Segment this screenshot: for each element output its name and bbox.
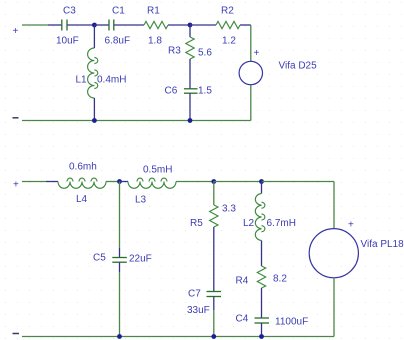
resistor R4 [257, 266, 265, 288]
svg-text:22uF: 22uF [129, 254, 152, 265]
node C (junction L4/L3/C5) [117, 179, 122, 184]
svg-text:+: + [348, 220, 354, 231]
wire C5 to bottom rail [119, 262, 121, 272]
wire node B to R2 [190, 24, 216, 26]
wire C4 to bottom rail [261, 323, 263, 337]
wire bottom rail of bottom circuit [22, 336, 334, 338]
inductor L3 [128, 178, 176, 188]
wire speaker bottom to bottom rail [250, 85, 252, 121]
capacitor C7 [207, 292, 222, 297]
wire corner down to speaker U2 [333, 182, 335, 229]
wire top rail left from + to C3 [22, 24, 48, 26]
wire node A to C1 [94, 24, 109, 26]
resistor R1 [144, 21, 168, 28]
svg-text:10uF: 10uF [56, 36, 79, 47]
node - (woofer minus terminal) [13, 333, 20, 335]
wire node D to node E [214, 181, 262, 183]
node junction L1/bottom rail [92, 118, 97, 123]
wire C1 to R1 [114, 24, 144, 26]
svg-text:C7: C7 [188, 289, 201, 300]
svg-text:Vifa D25: Vifa D25 [279, 61, 318, 72]
svg-text:6.7mH: 6.7mH [267, 218, 296, 229]
svg-text:1.2: 1.2 [222, 36, 236, 47]
wire node E down to L2 [261, 182, 263, 194]
node B (junction R1/R2/R3) [188, 23, 193, 28]
svg-text:8.2: 8.2 [273, 274, 287, 285]
wire L1 to bottom rail [93, 98, 95, 121]
wire node C to L3 [120, 181, 129, 183]
wire corner down to speaker U1 [250, 25, 252, 61]
svg-text:+: + [13, 26, 19, 37]
node junction C4/bottom rail [259, 334, 264, 339]
wire L3 to node D [176, 181, 214, 183]
wire bottom rail of top circuit [22, 120, 251, 122]
wire node A down to L1 [93, 25, 95, 48]
node junction C6/bottom rail [188, 118, 193, 123]
wire R4 to C4 [261, 288, 263, 318]
speaker U1 Vifa D25 [239, 61, 262, 84]
svg-text:R2: R2 [221, 6, 234, 17]
svg-text:+: + [254, 48, 260, 59]
svg-text:3.3: 3.3 [222, 204, 236, 215]
inductor L4 [58, 178, 106, 188]
svg-text:5.6: 5.6 [198, 48, 212, 59]
capacitor C1 [109, 20, 114, 31]
svg-text:L1: L1 [76, 75, 88, 86]
wire speaker bottom to bottom rail [333, 278, 335, 337]
svg-text:1100uF: 1100uF [275, 317, 308, 328]
svg-text:0.4mH: 0.4mH [97, 75, 126, 86]
svg-text:6.8uF: 6.8uF [105, 36, 131, 47]
node junction C5/bottom rail [117, 334, 122, 339]
inductor L2 [255, 194, 265, 241]
svg-text:L4: L4 [76, 194, 88, 205]
svg-text:Vifa PL18: Vifa PL18 [361, 239, 404, 250]
svg-text:C5: C5 [93, 253, 106, 264]
svg-text:1.5: 1.5 [198, 86, 212, 97]
wire R3 to C6 [189, 59, 191, 89]
svg-text:L2: L2 [243, 218, 255, 229]
svg-text:0.5mH: 0.5mH [143, 165, 172, 176]
wire node B down to R3 [189, 25, 191, 37]
resistor R3 [186, 37, 194, 59]
svg-text:+: + [13, 180, 19, 191]
inductor L1 [88, 48, 98, 98]
wire C3 to node A [67, 24, 94, 26]
wire from + to L4 [22, 181, 46, 183]
svg-text:R4: R4 [236, 276, 249, 287]
wire R5 to C7 [213, 227, 215, 292]
wire L4 to node C [106, 181, 120, 183]
node E (junction L2 branch) [259, 179, 264, 184]
resistor R5 [210, 205, 218, 227]
wire node E to top-right corner [262, 181, 335, 183]
speaker U2 Vifa PL18 [309, 229, 358, 278]
node D (junction R5 branch) [211, 179, 216, 184]
wire node C down to C5 [119, 182, 121, 249]
svg-text:R3: R3 [168, 46, 181, 57]
node junction C7/bottom rail [211, 334, 216, 339]
capacitor C5 [112, 258, 127, 263]
capacitor C3 [62, 20, 67, 31]
svg-text:1.8: 1.8 [148, 36, 162, 47]
node A (junction C3/C1/L1) [92, 23, 97, 28]
wire C7 to bottom rail [213, 297, 215, 311]
wire R2 to top-right corner [240, 24, 251, 26]
svg-text:C6: C6 [165, 86, 178, 97]
capacitor C6 [184, 89, 198, 93]
svg-text:0.6mh: 0.6mh [69, 162, 97, 173]
svg-text:C1: C1 [112, 6, 125, 17]
resistor R2 [216, 21, 240, 28]
svg-text:R1: R1 [147, 6, 160, 17]
svg-text:R5: R5 [190, 218, 203, 229]
svg-text:C3: C3 [63, 6, 76, 17]
wire C6 to bottom rail [189, 93, 191, 120]
svg-text:C4: C4 [236, 314, 249, 325]
wire L2 to R4 [261, 241, 263, 267]
wire node D down to R5 [213, 182, 215, 206]
svg-text:L3: L3 [135, 195, 147, 206]
node - (tweeter minus terminal) [13, 117, 19, 119]
capacitor C4 [255, 318, 270, 323]
wire R1 to node B [168, 24, 190, 26]
svg-text:33uF: 33uF [187, 305, 210, 316]
